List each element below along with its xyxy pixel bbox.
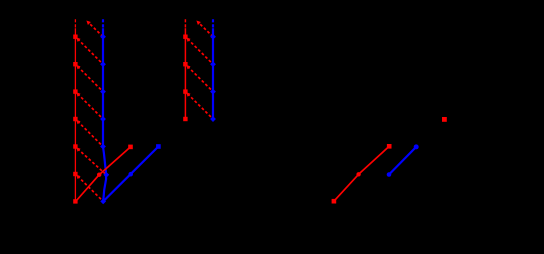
blue node step 6 group 1 (shifted) (103, 172, 109, 178)
red timeline P0 continuation (dashed) (74, 19, 76, 28)
group 1 message arrow step 4 (dashed) (78, 121, 103, 146)
red node step 1 group 1 (73, 35, 77, 39)
group 1 message arrow step 5 (dashed) (78, 149, 107, 175)
red timeline P2 (184, 28, 186, 119)
red diagonal left mid dot (97, 173, 101, 177)
red diagonal left end square (128, 145, 133, 150)
blue diagonal right start dot (387, 172, 392, 177)
group 1 message arrow step 1 (dashed) (78, 39, 103, 64)
red timeline P2 continuation (dashed) (184, 19, 186, 28)
red node step 1 group 2 (183, 35, 187, 39)
blue diagonal left mid dot (128, 172, 133, 177)
blue node step 1 group 2 (210, 34, 216, 40)
blue timeline P3 (212, 28, 214, 119)
group 1 message arrow step 3 (dashed) (78, 94, 103, 119)
red diagonal right start square (332, 199, 337, 204)
group 1 message arrowhead step 3 (76, 92, 81, 97)
group 2 partial message arrowhead (196, 21, 201, 26)
blue node step 7 group 1 (100, 199, 106, 205)
group 1 message arrow step 6 (dashed) (78, 176, 104, 201)
red node step 7 group 1 (73, 199, 77, 203)
red diagonal right end square (387, 144, 392, 149)
blue timeline P1 continuation (dashed) (102, 19, 104, 28)
group 2 message arrow step 2 (dashed) (188, 66, 213, 91)
group 2 message arrow step 3 (dashed) (188, 94, 213, 119)
group 2 message arrowhead step 2 (186, 65, 191, 70)
group 1 partial message arrow from above (dashed) (88, 22, 103, 37)
group 1 message arrowhead step 4 (76, 120, 81, 124)
red final result square (442, 117, 447, 122)
blue node step 2 group 1 (100, 61, 106, 67)
blue node step 4 group 2 (210, 116, 216, 122)
red timeline P0 (74, 28, 76, 201)
blue data-movement diagonal right (389, 147, 416, 175)
group 1 message arrowhead step 5 (76, 147, 81, 152)
red data-movement diagonal right (334, 146, 389, 201)
group 1 partial message arrowhead (86, 21, 91, 26)
blue diagonal left end square (156, 144, 161, 149)
red node step 2 group 2 (183, 62, 187, 66)
blue node step 3 group 2 (210, 89, 216, 95)
blue timeline P3 continuation (dashed) (212, 19, 214, 28)
red node step 2 group 1 (73, 62, 77, 66)
red node step 5 group 1 (73, 144, 77, 148)
blue node step 2 group 2 (210, 61, 216, 67)
group 2 message arrowhead step 3 (186, 92, 191, 97)
blue node step 4 group 1 (100, 116, 106, 122)
red node step 6 group 1 (73, 172, 77, 176)
group 2 message arrow step 1 (dashed) (188, 39, 213, 64)
red node step 4 group 1 (73, 117, 77, 121)
blue node step 1 group 1 (100, 34, 106, 40)
red node step 4 group 2 (183, 117, 187, 121)
blue node step 3 group 1 (100, 89, 106, 95)
group 1 message arrowhead step 6 (76, 175, 81, 180)
group 1 message arrowhead step 1 (76, 37, 81, 42)
red node step 3 group 2 (183, 89, 187, 93)
group 1 message arrowhead step 2 (76, 65, 81, 70)
blue timeline P1 lower kinked (103, 147, 106, 202)
group 2 message arrowhead step 1 (186, 37, 191, 42)
blue data-movement diagonal left (103, 147, 158, 202)
red data-movement diagonal left (76, 147, 131, 202)
red node step 3 group 1 (73, 89, 77, 93)
group 1 message arrow step 2 (dashed) (78, 66, 103, 91)
red diagonal right mid dot (356, 172, 360, 176)
group 2 partial message arrow from above (dashed) (198, 22, 213, 37)
blue diagonal right end dot (414, 144, 419, 149)
blue timeline P1 upper (102, 28, 104, 146)
blue node step 5 group 1 (100, 144, 106, 150)
